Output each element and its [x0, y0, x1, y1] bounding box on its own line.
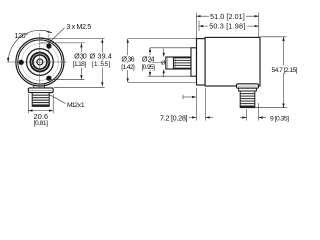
dim Ø24 arrows	[149, 48, 151, 76]
dim 54.7 arrows	[282, 37, 284, 108]
leader line 3xM2.5	[49, 28, 64, 43]
side view boss Ø24	[191, 48, 197, 76]
dim Ø30 line	[80, 43, 82, 79]
dim 54.7 line	[283, 37, 285, 108]
svg-text:[0.81]: [0.81]	[34, 120, 49, 127]
dimension 20.6 arrows	[28, 109, 53, 111]
dim Ø30 ext lines	[41, 43, 85, 80]
svg-text:Ø 36: Ø 36	[121, 54, 134, 63]
front view body circle (Ø36)	[18, 40, 62, 84]
shaft dim arrows	[163, 53, 165, 73]
dim Ø39.4 ext lines	[41, 39, 105, 88]
side view shaft	[166, 57, 191, 69]
mounting hole B (bottom right)	[46, 76, 51, 81]
svg-text:9 [0.35]: 9 [0.35]	[270, 115, 289, 122]
front view flange circle (Ø39.4)	[16, 38, 64, 86]
svg-text:7.2 [0.28]: 7.2 [0.28]	[160, 113, 188, 122]
svg-text:Ø: Ø	[161, 60, 166, 66]
label dia24	[141, 54, 155, 71]
svg-text:[1.55]: [1.55]	[92, 61, 111, 68]
dim Ø30 arrows	[80, 43, 82, 79]
label dia36	[120, 54, 135, 71]
svg-text:Ø 24: Ø 24	[142, 54, 155, 63]
leader line M12x1	[49, 94, 66, 103]
dim 51.0 ext lines	[196, 13, 258, 39]
side view body	[205, 37, 260, 86]
svg-text:[1.42]: [1.42]	[121, 64, 135, 71]
front view boss circle (Ø24)	[27, 49, 54, 76]
side view shaft knurl	[174, 58, 192, 68]
dim 9 ext lines	[247, 103, 259, 121]
svg-text:3 x M2.5: 3 x M2.5	[66, 22, 91, 31]
dim 51.0 arrows	[196, 15, 258, 17]
side connector flange bar	[237, 84, 259, 88]
svg-text:[1.18]: [1.18]	[73, 61, 86, 68]
dim 50.3 arrows	[199, 25, 259, 27]
label 54.7	[271, 66, 299, 75]
dim 51.0 line	[196, 15, 258, 17]
120 degree dimension arc	[8, 30, 52, 62]
mounting hole C (left)	[19, 60, 24, 65]
dim 50.3 line	[199, 25, 259, 27]
front connector flange bar inner line	[29, 89, 53, 91]
120 arc arrowhead right	[45, 30, 52, 32]
front view vertical centerline	[39, 33, 41, 92]
label 51.0	[209, 12, 246, 21]
small flange arrow marker	[183, 96, 196, 98]
front view shaft bore circle (Ø6)	[37, 59, 43, 65]
front view bolt circle (Ø30)	[21, 44, 58, 81]
front connector neck	[34, 85, 45, 89]
side view flange slab Ø36	[197, 39, 206, 85]
dim Ø36 ext lines	[128, 39, 197, 83]
side view axis centerline	[152, 62, 168, 64]
dim Ø24 line	[149, 48, 151, 76]
dim 50.3 ext line	[198, 21, 200, 32]
front connector flange bar	[28, 88, 53, 93]
dim 54.7 ext lines	[252, 37, 287, 108]
front connector thread	[32, 93, 49, 107]
shaft small diameter dim	[163, 49, 165, 78]
mounting hole A (top right)	[46, 43, 51, 48]
dim 9 line and arrows	[240, 117, 247, 119]
label dia30	[72, 52, 88, 68]
hole A radial centerline	[48, 34, 50, 51]
svg-text:50.3 [1.98]: 50.3 [1.98]	[209, 22, 245, 31]
dim Ø24 ext lines	[148, 48, 194, 76]
svg-text:54.7 [2.15]: 54.7 [2.15]	[272, 67, 298, 74]
120 arc arrowhead left	[7, 58, 10, 62]
side view shaft face line	[166, 57, 168, 69]
front view hub ring split	[32, 54, 48, 70]
svg-text:Ø 39.4: Ø 39.4	[90, 52, 112, 61]
label 50.3	[208, 22, 247, 31]
front view hub ring	[32, 54, 49, 71]
side connector thread	[240, 91, 255, 108]
svg-text:Ø 30: Ø 30	[74, 52, 87, 61]
svg-text:51.0 [2.01]: 51.0 [2.01]	[210, 12, 245, 21]
side connector bar inner line	[237, 85, 257, 87]
dim Ø36 line	[127, 39, 129, 83]
svg-text:M12 x 1: M12 x 1	[67, 102, 85, 109]
dim Ø39.4 line	[101, 39, 103, 87]
front view horizontal centerline	[7, 61, 67, 63]
svg-text:[0.95]: [0.95]	[141, 64, 155, 71]
dim Ø36 arrows	[127, 39, 129, 83]
dim 7.2 line and arrows	[189, 116, 196, 118]
dimension 20.6 ext lines	[28, 94, 53, 113]
side connector washer	[239, 88, 257, 91]
dimension 20.6 line	[28, 110, 53, 112]
dim 7.2 ext lines	[196, 88, 205, 121]
dim Ø39.4 arrows	[101, 39, 103, 87]
svg-text:120°: 120°	[14, 31, 28, 40]
label dia39.4	[89, 52, 113, 68]
